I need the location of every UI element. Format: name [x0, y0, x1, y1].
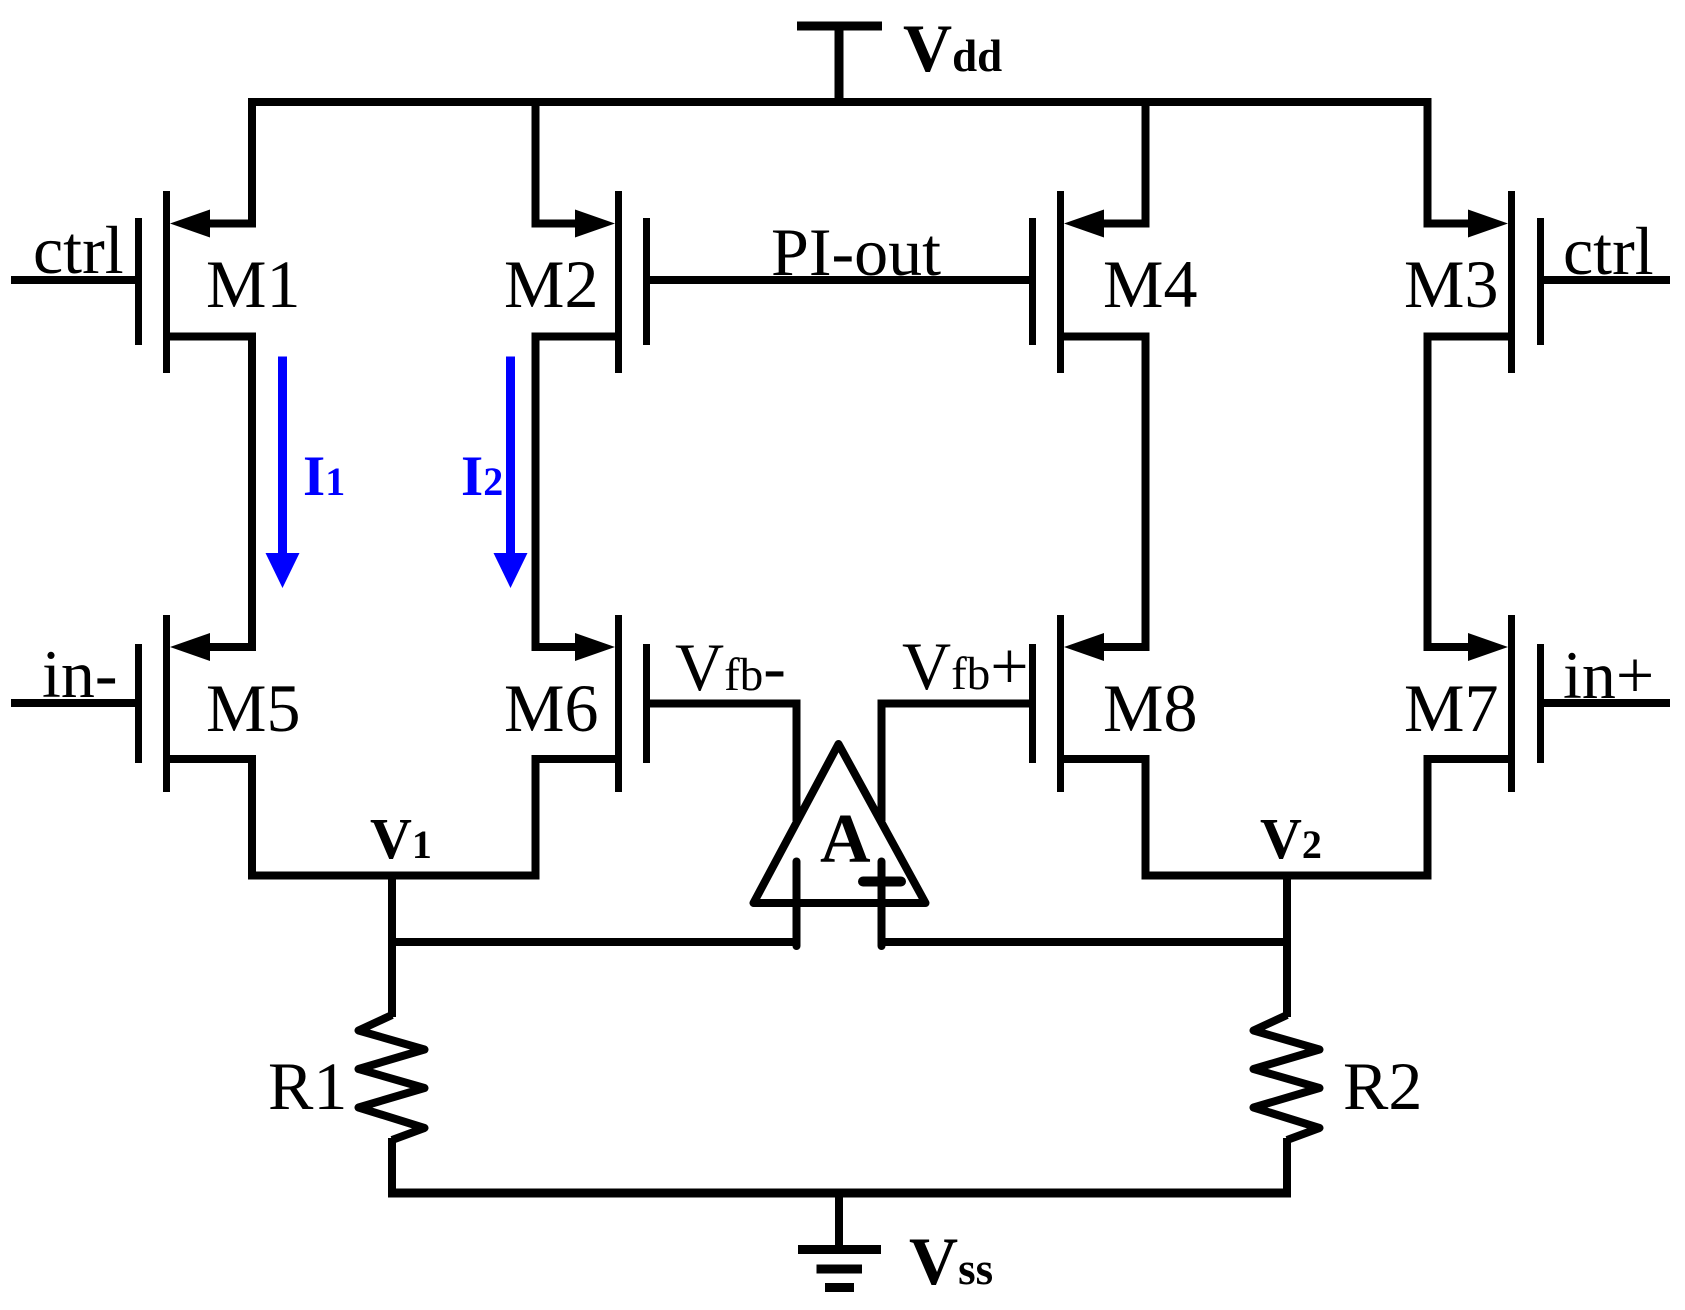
transistor M5: [139, 615, 257, 880]
current arrow I2: [494, 357, 528, 589]
wire Vss rail: [388, 1189, 1291, 1198]
Vdd power symbol: [797, 26, 882, 102]
wire op-amp plus input to V2 junction: [878, 938, 1288, 946]
wire ctrl left: [11, 276, 139, 284]
wire ctrl right: [1541, 276, 1671, 284]
svg-text:R1: R1: [268, 1048, 347, 1124]
svg-text:M7: M7: [1404, 670, 1498, 746]
wire M3 source to M7 drain: [1424, 333, 1432, 652]
wire PI-out net: [647, 276, 1033, 284]
wire R1 to Vss rail: [388, 1138, 396, 1197]
svg-text:M6: M6: [504, 670, 598, 746]
wire Vfb+ from M8 gate down: [882, 704, 1033, 822]
resistor R1: [359, 1015, 425, 1140]
wire node V2: [1142, 872, 1432, 880]
svg-text:ctrl: ctrl: [33, 212, 124, 288]
wire V1 junction to op-amp minus input: [392, 938, 801, 946]
transistor M8: [1033, 615, 1150, 880]
svg-text:R2: R2: [1343, 1048, 1422, 1124]
svg-text:M1: M1: [206, 246, 300, 322]
svg-text:ctrl: ctrl: [1563, 213, 1654, 289]
transistor M6: [532, 615, 647, 880]
svg-text:in-: in-: [42, 636, 118, 712]
wire node V1: [248, 872, 540, 880]
svg-text:in+: in+: [1563, 637, 1654, 713]
svg-text:M5: M5: [206, 670, 300, 746]
wire V1 stub down to R1: [388, 876, 396, 1018]
transistor M1: [139, 98, 253, 373]
wire in+: [1541, 699, 1671, 707]
svg-text:A: A: [820, 801, 871, 878]
wire R2 to Vss rail: [1283, 1138, 1291, 1197]
wire M2 source to M6 drain: [532, 333, 540, 652]
wire M4 source to M8 drain: [1142, 333, 1150, 652]
wire Vdd top rail: [248, 98, 1431, 106]
transistor M3: [1428, 98, 1541, 373]
transistor M2: [536, 98, 647, 373]
svg-text:PI-out: PI-out: [771, 214, 941, 290]
svg-text:M4: M4: [1103, 246, 1197, 322]
svg-text:M2: M2: [504, 246, 598, 322]
wire V2 stub down to R2: [1283, 876, 1291, 1018]
wire M1 source to M5 drain: [248, 333, 256, 652]
ground symbol: [798, 1193, 881, 1288]
svg-text:M8: M8: [1103, 670, 1197, 746]
transistor M4: [1033, 98, 1146, 373]
transistor M7: [1424, 615, 1541, 880]
wire Vfb- from M6 gate down: [647, 704, 797, 822]
current arrow I1: [266, 357, 300, 589]
wire in-: [11, 699, 139, 707]
svg-text:M3: M3: [1404, 246, 1498, 322]
resistor R2: [1254, 1015, 1320, 1140]
op-amp A: [754, 744, 926, 946]
